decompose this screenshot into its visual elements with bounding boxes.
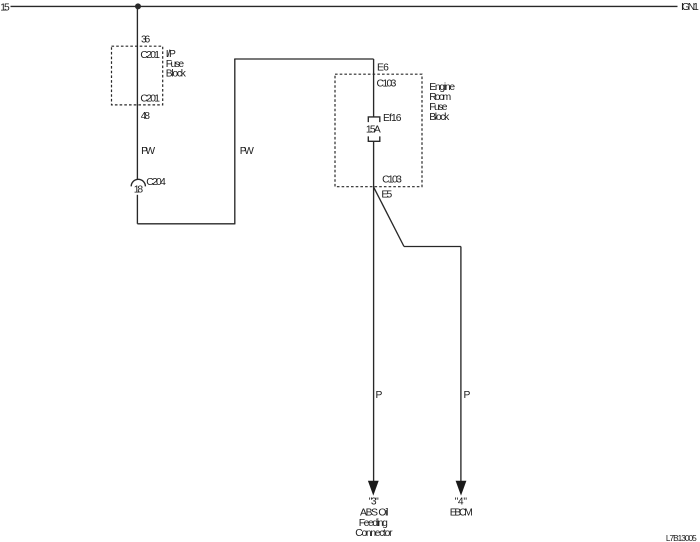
- svg-text:"3": "3": [369, 496, 379, 507]
- svg-text:PW: PW: [141, 146, 155, 157]
- svg-text:18: 18: [134, 185, 144, 196]
- svg-text:48: 48: [141, 111, 150, 122]
- arrow: to "3" ABS Oil Feeding Connector: [368, 481, 379, 496]
- connector C204 half-circle symbol: [131, 179, 145, 186]
- svg-text:L7B13005: L7B13005: [666, 533, 697, 542]
- wire: diagonal branch from node E5: [374, 187, 404, 246]
- wire: horizontal run to engine room fuse block: [234, 58, 373, 60]
- wire: horizontal branch segment to EBCM drop: [404, 246, 461, 248]
- svg-text:"4": "4": [455, 496, 468, 507]
- svg-text:E5: E5: [381, 190, 392, 201]
- node: junction dot on power rail: [135, 3, 141, 9]
- svg-text:36: 36: [141, 35, 150, 46]
- wire: vertical drop from rail through I/P fuse block to C204: [136, 6, 138, 179]
- wire: vertical rise of PW wire at x=235: [234, 59, 236, 224]
- svg-text:P: P: [464, 390, 471, 401]
- svg-text:C103: C103: [377, 78, 397, 89]
- svg-text:Ef16: Ef16: [383, 113, 402, 124]
- svg-text:15: 15: [0, 2, 10, 13]
- fuse block: engine room fuse block dashed outline: [335, 74, 422, 187]
- wire: drop into engine room fuse block to fuse Ef16: [373, 59, 375, 117]
- svg-text:E6: E6: [377, 63, 389, 74]
- svg-text:C204: C204: [146, 177, 166, 188]
- svg-text:C201: C201: [140, 50, 160, 61]
- wire: from fuse Ef16 down through C103/E5 to arrow "3": [373, 141, 375, 481]
- svg-text:ABS Oil: ABS Oil: [360, 507, 388, 518]
- svg-text:C103: C103: [382, 175, 402, 186]
- wire: segment from connector C204 down to bottom jog: [136, 195, 138, 224]
- wire: horizontal jog at bottom of left loop: [137, 223, 234, 225]
- svg-text:15A: 15A: [366, 125, 381, 136]
- fuse Ef16 symbol: [368, 117, 380, 141]
- svg-text:Connector: Connector: [355, 528, 393, 539]
- connector C201 / I/P fuse block dashed outline: [112, 46, 163, 105]
- svg-text:IGN1: IGN1: [681, 2, 699, 13]
- svg-text:EBCM: EBCM: [450, 507, 473, 518]
- svg-text:P: P: [376, 390, 383, 401]
- arrow: to "4" EBCM: [456, 481, 467, 496]
- svg-text:C201: C201: [140, 93, 160, 104]
- svg-text:PW: PW: [240, 146, 254, 157]
- wire: vertical drop to arrow "4" EBCM: [460, 247, 462, 482]
- svg-text:Block: Block: [429, 112, 450, 123]
- svg-text:Block: Block: [166, 69, 187, 80]
- wire: top power rail circuit 15 / IGN1: [11, 5, 678, 7]
